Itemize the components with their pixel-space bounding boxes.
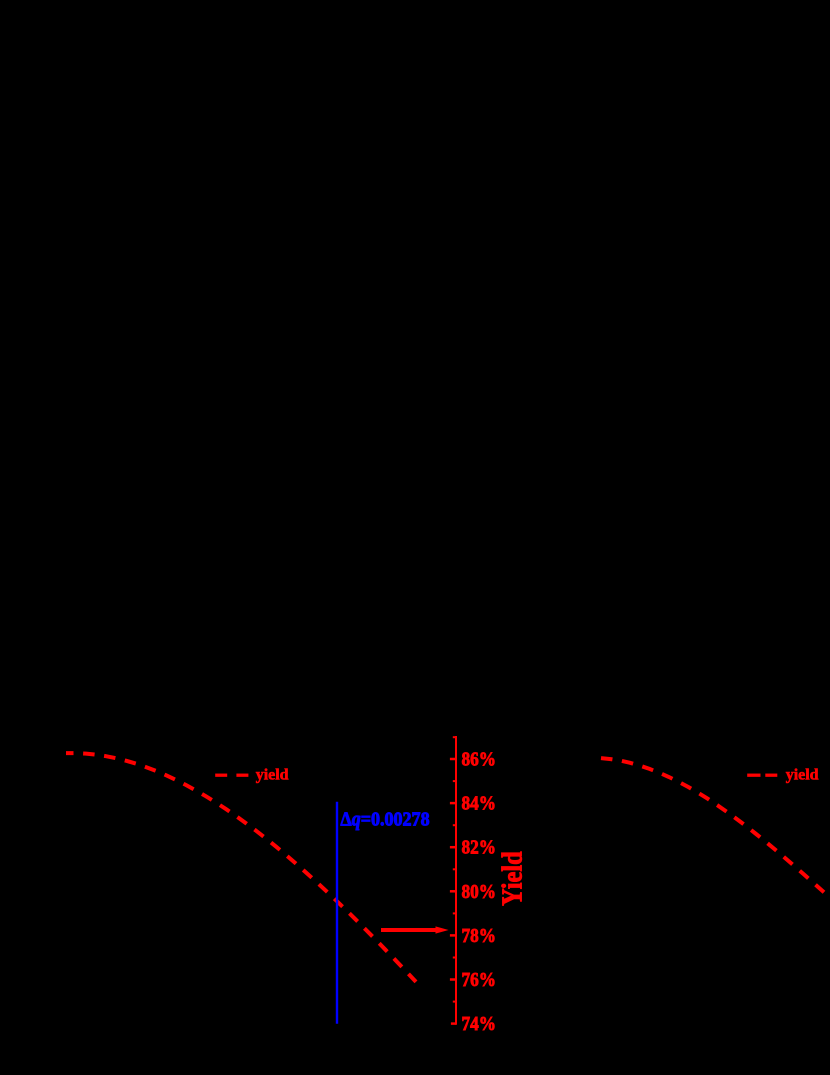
svg-text:Yield: Yield <box>498 851 529 906</box>
svg-text:86%: 86% <box>462 749 497 771</box>
svg-text:82%: 82% <box>462 837 497 859</box>
svg-text:78%: 78% <box>462 925 497 947</box>
svg-text:yield: yield <box>786 767 819 784</box>
svg-text:76%: 76% <box>462 969 497 991</box>
svg-text:yield: yield <box>256 767 289 784</box>
svg-text:80%: 80% <box>462 881 497 903</box>
svg-text:84%: 84% <box>462 793 497 815</box>
svg-text:Δq=0.00278: Δq=0.00278 <box>340 808 429 830</box>
svg-text:74%: 74% <box>462 1013 497 1035</box>
